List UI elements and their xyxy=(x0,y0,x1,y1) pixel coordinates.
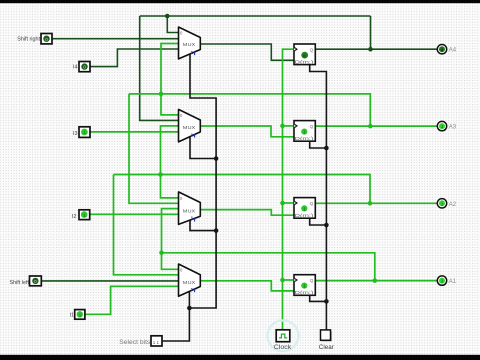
svg-text:1: 1 xyxy=(191,216,194,221)
svg-text:A4: A4 xyxy=(449,48,457,54)
svg-text:I3: I3 xyxy=(73,131,78,137)
svg-text:1: 1 xyxy=(83,130,86,135)
svg-text:1 1: 1 1 xyxy=(153,340,160,345)
svg-text:Clock: Clock xyxy=(274,344,292,351)
svg-text:MUX: MUX xyxy=(183,42,195,47)
svg-text:MUX: MUX xyxy=(183,125,195,130)
svg-text:I1: I1 xyxy=(70,312,75,318)
svg-text:Shift left: Shift left xyxy=(10,280,30,286)
svg-text:Shift right: Shift right xyxy=(17,37,40,43)
svg-text:1: 1 xyxy=(191,287,194,292)
svg-text:D(rn:): D(rn:) xyxy=(295,59,315,64)
svg-text:Q: Q xyxy=(310,48,314,54)
svg-text:Clear: Clear xyxy=(319,344,335,351)
svg-text:Q: Q xyxy=(310,278,314,284)
svg-text:A1: A1 xyxy=(449,279,457,285)
svg-text:Q: Q xyxy=(310,124,314,130)
svg-text:1: 1 xyxy=(191,50,194,55)
svg-text:Q: Q xyxy=(310,201,314,207)
svg-text:1: 1 xyxy=(83,213,86,218)
svg-text:MUX: MUX xyxy=(183,280,195,285)
svg-text:0: 0 xyxy=(441,47,444,53)
svg-text:MUX: MUX xyxy=(183,208,195,213)
svg-text:Select bits: Select bits xyxy=(119,339,150,346)
svg-text:0: 0 xyxy=(34,279,37,284)
svg-text:0: 0 xyxy=(83,65,86,70)
svg-text:A2: A2 xyxy=(449,202,457,208)
svg-text:D(rn:): D(rn:) xyxy=(295,213,315,218)
svg-text:I2: I2 xyxy=(72,214,77,220)
svg-text:A3: A3 xyxy=(449,125,457,131)
svg-text:I4: I4 xyxy=(73,65,78,71)
svg-text:D(rn:): D(rn:) xyxy=(295,136,315,141)
svg-text:D(rn:): D(rn:) xyxy=(295,290,315,295)
svg-text:1: 1 xyxy=(191,133,194,138)
svg-text:0: 0 xyxy=(45,37,48,42)
svg-text:1: 1 xyxy=(79,312,82,317)
svg-text:0: 0 xyxy=(303,53,306,58)
